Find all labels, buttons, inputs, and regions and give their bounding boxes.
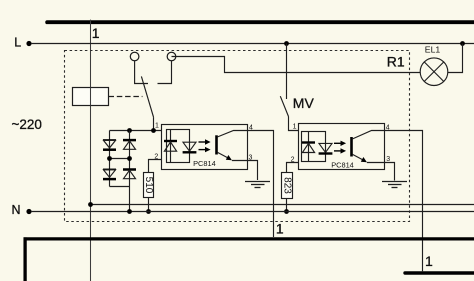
- svg-text:EL1: EL1: [425, 45, 441, 55]
- svg-text:PC814: PC814: [331, 160, 354, 169]
- wire MV to opto U2 pin 1: [289, 117, 299, 131]
- resistor 823: [282, 173, 293, 199]
- node bridge/rail: [127, 128, 132, 133]
- svg-text:510: 510: [143, 177, 154, 194]
- node bridge/N: [127, 209, 132, 214]
- node blade/rail: [151, 128, 156, 133]
- opto U2 PC814 body: [299, 124, 385, 170]
- node (lamp tap on L): [460, 41, 465, 46]
- node (MV tap on L): [284, 41, 289, 46]
- relay contact circle a: [130, 52, 139, 61]
- dashed mechanical link: [109, 96, 143, 98]
- U1 transistor bar: [215, 135, 218, 154]
- node bridge mid right: [127, 156, 132, 161]
- diode VD4: [123, 170, 136, 179]
- relay coil K1: [73, 88, 109, 106]
- switch MV blade: [280, 96, 288, 116]
- wire contact a stub: [135, 61, 148, 84]
- U2 LED left diode: [302, 143, 315, 153]
- node 823/N: [284, 209, 289, 214]
- wire bridge right column: [129, 131, 131, 212]
- diode VD2: [103, 169, 116, 179]
- wire contact b stub: [158, 61, 172, 84]
- ground (U1 emitter): [245, 182, 270, 188]
- wire lamp to L node: [448, 44, 463, 73]
- svg-text:N: N: [12, 203, 21, 217]
- bus bar 1 (bottom right): [405, 271, 474, 274]
- svg-text:~220: ~220: [12, 117, 42, 132]
- U2 coupling arrows: [334, 141, 346, 154]
- svg-text:L: L: [14, 36, 21, 50]
- svg-text:R1: R1: [387, 54, 405, 70]
- resistor 510: [143, 173, 154, 198]
- wire vertical from bus 1 through relay coil: [90, 20, 92, 281]
- wire U1 pin 2 to resistor: [149, 160, 162, 173]
- svg-text:MV: MV: [293, 95, 315, 111]
- module dashed border: [65, 51, 410, 222]
- U1 LED left axis: [170, 130, 172, 163]
- wire bridge bottom link: [110, 186, 130, 188]
- node coil/rail: [88, 202, 93, 207]
- U2 LED box: [302, 132, 326, 162]
- U1 LED left diode: [164, 141, 177, 151]
- U1 LED right diode: [183, 142, 197, 152]
- svg-text:1: 1: [92, 25, 100, 41]
- ground (U2 emitter): [382, 182, 407, 188]
- wire rail (coil return): [91, 204, 474, 206]
- diode VD3: [123, 140, 136, 149]
- relay blade: [141, 76, 153, 117]
- U2 LED left axis: [308, 132, 310, 162]
- wire N rail: [31, 211, 474, 213]
- diode VD1: [103, 140, 116, 150]
- node bridge mid left: [107, 156, 112, 161]
- opto U1 PC814 body: [162, 125, 248, 170]
- wire bridge left column: [109, 131, 111, 187]
- svg-text:3: 3: [386, 156, 390, 163]
- svg-text:1: 1: [425, 253, 433, 269]
- wire L line: [31, 43, 474, 45]
- wire contact b to lamp: [172, 57, 421, 73]
- switch MV feed wire: [286, 44, 288, 100]
- svg-text:1: 1: [276, 221, 284, 237]
- bus bar (bottom left, L shaped): [24, 237, 474, 281]
- wire resistor 510 to N rail: [148, 198, 150, 212]
- node 510/N: [146, 209, 151, 214]
- U2 emitter: [352, 154, 394, 180]
- U1 collector wire to bus: [217, 131, 273, 238]
- U1 coupling arrows: [199, 139, 211, 152]
- svg-text:1: 1: [293, 123, 297, 130]
- wire bridge top rail: [110, 130, 162, 132]
- bus bar 1 (top): [47, 20, 474, 24]
- svg-text:PC814: PC814: [193, 159, 216, 168]
- relay contact circle b: [167, 52, 176, 61]
- wire resistor 823 to N rail: [286, 199, 288, 212]
- wire through coil: [90, 88, 92, 106]
- wire blade to node: [153, 117, 155, 130]
- wire U2 pin 2 to resistor: [287, 163, 299, 173]
- U1 emitter: [217, 152, 257, 180]
- svg-text:823: 823: [282, 177, 293, 194]
- U1 LED box: [167, 130, 190, 163]
- U2 collector wire to bus 1 (bottom right): [352, 131, 422, 272]
- wire bridge mid link: [110, 158, 130, 160]
- svg-text:1: 1: [155, 123, 159, 130]
- U2 transistor bar: [350, 137, 353, 157]
- U2 LED right diode: [319, 143, 333, 153]
- lamp EL1: [420, 45, 448, 86]
